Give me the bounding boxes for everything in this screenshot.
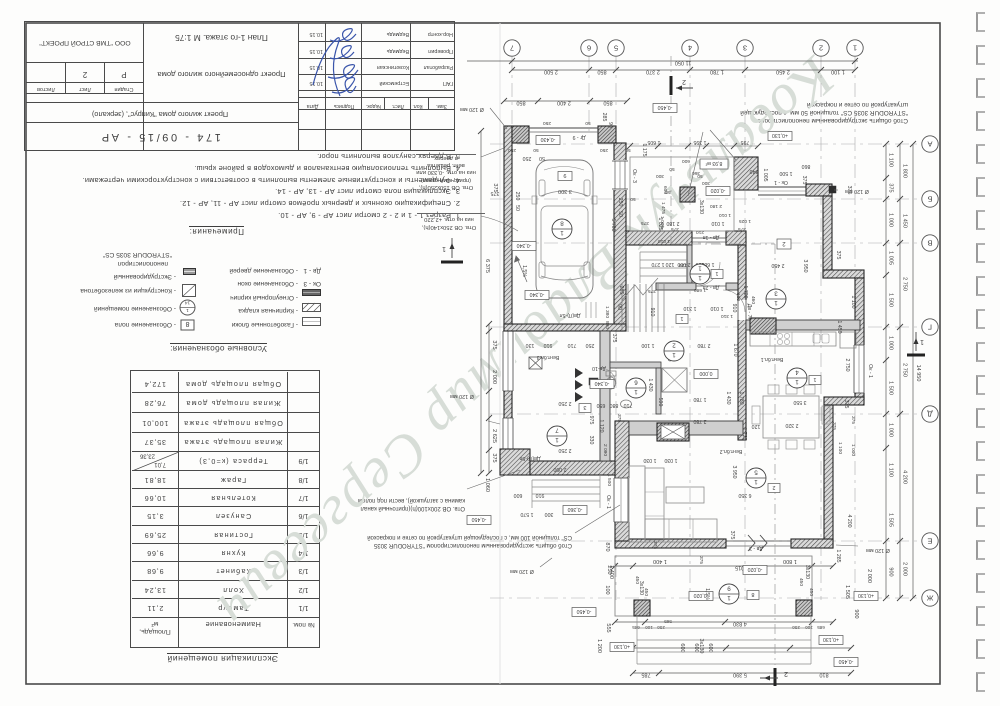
svg-text:1 500: 1 500: [606, 474, 612, 486]
svg-text:90: 90: [616, 304, 622, 310]
svg-text:1: 1: [672, 351, 676, 358]
svg-text:Е: Е: [927, 536, 932, 545]
svg-text:1 010: 1 010: [658, 238, 670, 244]
svg-text:1 500: 1 500: [888, 293, 894, 307]
car in garage: [536, 160, 593, 298]
svg-text:0,000: 0,000: [699, 370, 712, 376]
svg-text:3х130: 3х130: [698, 200, 704, 214]
svg-text:375: 375: [611, 334, 617, 343]
svg-text:2 000: 2 000: [491, 370, 497, 384]
svg-text:1: 1: [698, 265, 702, 272]
vent block 2: [657, 423, 689, 441]
svg-text:2 780: 2 780: [693, 418, 706, 424]
svg-text:50: 50: [514, 205, 520, 211]
svg-text:450: 450: [798, 578, 804, 586]
svg-text:600: 600: [662, 186, 668, 194]
svg-text:1 005: 1 005: [762, 169, 768, 182]
svg-text:6: 6: [634, 379, 638, 386]
svg-text:1,5%: 1,5%: [704, 588, 710, 600]
svg-text:250: 250: [586, 342, 595, 348]
porch dim chain: [630, 145, 758, 147]
section 2 cut line: [670, 56, 672, 244]
svg-text:650: 650: [597, 402, 606, 408]
svg-text:375: 375: [652, 541, 658, 549]
vestibule bottom wall + door Дв-2п: [656, 283, 696, 290]
notes block: [189, 226, 244, 235]
svg-text:375: 375: [491, 190, 500, 196]
svg-text:1 120: 1 120: [598, 420, 604, 433]
kitchen counter: [750, 332, 836, 346]
svg-text:1 570: 1 570: [520, 511, 533, 517]
svg-text:Вент.бл.2: Вент.бл.2: [720, 448, 743, 454]
binding hole marks: [976, 12, 985, 32]
svg-text:2 370: 2 370: [646, 69, 660, 75]
svg-text:Ø 120 мм: Ø 120 мм: [450, 393, 474, 399]
svg-text:250: 250: [514, 192, 520, 201]
level marks: [653, 104, 677, 113]
svg-text:1,5%: 1,5%: [521, 265, 527, 277]
svg-text:250: 250: [657, 625, 665, 630]
svg-text:900: 900: [888, 567, 894, 576]
svg-text:2 750: 2 750: [902, 277, 908, 291]
door swing arcs: [723, 290, 745, 312]
svg-text:+0,130: +0,130: [772, 132, 788, 138]
svg-text:1: 1: [442, 245, 446, 252]
svg-text:-0,340: -0,340: [595, 380, 610, 386]
svg-text:8: 8: [560, 220, 564, 227]
svg-text:-0,340: -0,340: [517, 242, 532, 248]
svg-text:2 500: 2 500: [544, 69, 558, 75]
svg-text:1 025: 1 025: [659, 216, 665, 228]
vestibule left wall: [687, 245, 692, 284]
wall right of vestibule: [738, 245, 746, 440]
svg-text:250: 250: [617, 198, 623, 207]
svg-text:Дв - 7п: Дв - 7п: [746, 304, 752, 321]
svg-text:3: 3: [743, 43, 747, 52]
svg-text:3: 3: [774, 290, 778, 297]
margin note: vent 150x250: [414, 154, 478, 190]
svg-text:880: 880: [604, 321, 610, 329]
svg-text:5 390: 5 390: [733, 672, 747, 678]
svg-text:1 310: 1 310: [721, 313, 733, 319]
svg-text:-0,450: -0,450: [839, 658, 854, 664]
svg-text:910: 910: [544, 342, 553, 348]
svg-text:2 180: 2 180: [710, 203, 722, 209]
svg-text:1 800: 1 800: [783, 558, 797, 564]
svg-text:900: 900: [853, 609, 859, 618]
dining table: [763, 396, 819, 438]
svg-text:1 005: 1 005: [888, 251, 894, 265]
svg-text:Ø 120 мм: Ø 120 мм: [866, 547, 890, 553]
bottom wall left part: [615, 539, 726, 548]
svg-text:450: 450: [808, 588, 814, 596]
svg-text:3х130: 3х130: [804, 565, 810, 579]
svg-text:3 550: 3 550: [793, 399, 806, 405]
svg-text:1 100: 1 100: [888, 463, 894, 477]
window Ок-5 in left wall: [501, 331, 515, 391]
svg-text:100: 100: [735, 293, 741, 301]
svg-text:2 250: 2 250: [558, 400, 571, 406]
svg-text:375: 375: [616, 414, 622, 422]
svg-text:-0,020: -0,020: [748, 566, 763, 572]
svg-text:600: 600: [707, 643, 713, 652]
svg-text:2: 2: [819, 43, 823, 52]
svg-text:1 000: 1 000: [888, 423, 894, 437]
svg-text:1 450: 1 450: [902, 214, 908, 228]
svg-text:785: 785: [641, 672, 650, 678]
svg-text:1 010: 1 010: [719, 212, 731, 218]
fireplace triangles: [575, 368, 583, 402]
svg-text:1 060: 1 060: [484, 478, 490, 492]
svg-text:450: 450: [634, 576, 640, 584]
axis number circles top: [504, 40, 520, 56]
svg-text:975: 975: [588, 416, 594, 425]
svg-text:4 200: 4 200: [846, 515, 852, 528]
shower cabin with cross: [662, 368, 687, 392]
pier right + vent: [806, 184, 832, 196]
svg-text:1 780: 1 780: [693, 396, 706, 402]
svg-text:100: 100: [645, 625, 653, 630]
svg-text:810: 810: [819, 672, 828, 678]
svg-text:Дв(Л)-5л: Дв(Л)-5л: [560, 312, 581, 318]
svg-text:2 000: 2 000: [902, 562, 908, 576]
svg-text:4: 4: [688, 43, 692, 52]
svg-text:Дв-10: Дв-10: [592, 365, 606, 371]
svg-text:50: 50: [539, 155, 545, 161]
svg-text:1 720: 1 720: [742, 286, 748, 299]
hall stairs treads: [621, 284, 623, 332]
svg-text:375: 375: [831, 422, 837, 430]
svg-text:1 670: 1 670: [732, 344, 738, 357]
axis grid dashed lines: [511, 56, 513, 131]
svg-text:8,93 м²: 8,93 м²: [705, 160, 722, 166]
svg-text:1 310: 1 310: [683, 305, 696, 311]
svg-text:Ок - 1: Ок - 1: [867, 364, 873, 378]
room schedule table: [167, 653, 278, 663]
svg-text:1 680: 1 680: [694, 287, 706, 293]
svg-text:Дв - 1п: Дв - 1п: [703, 234, 720, 240]
svg-text:2: 2: [772, 484, 775, 490]
svg-text:2 750: 2 750: [844, 359, 850, 372]
svg-text:1 100: 1 100: [850, 296, 856, 309]
bathroom toilet: [606, 371, 616, 376]
svg-text:300: 300: [702, 180, 710, 186]
right wall kitchen: [855, 278, 864, 399]
svg-text:1 475: 1 475: [660, 202, 666, 214]
svg-text:565: 565: [664, 619, 672, 624]
window Ок-1 front: [758, 186, 806, 188]
svg-text:910: 910: [731, 304, 737, 313]
svg-text:2 780: 2 780: [697, 342, 710, 348]
garage/boiler dividing wall: [504, 324, 626, 331]
section 2 top marker: [670, 76, 673, 95]
svg-text:4: 4: [795, 369, 799, 376]
note: styrodur 50mm (appears top-right of plan): [718, 100, 908, 124]
leaders from margin notes: [481, 148, 504, 157]
svg-text:Дв(П)-5п: Дв(П)-5п: [519, 455, 540, 461]
svg-text:1: 1: [634, 388, 638, 395]
svg-text:555: 555: [605, 623, 611, 632]
svg-text:1 380: 1 380: [604, 306, 610, 318]
blue pen signatures: [280, 22, 370, 106]
svg-text:130: 130: [526, 342, 535, 348]
svg-text:1 285: 1 285: [835, 550, 841, 563]
svg-text:2: 2: [672, 342, 676, 349]
svg-text:910: 910: [649, 308, 655, 317]
entry front wall: [626, 231, 692, 245]
svg-text:840: 840: [750, 168, 759, 174]
svg-text:300: 300: [656, 173, 664, 179]
svg-text:330: 330: [588, 436, 594, 445]
svg-text:1 000: 1 000: [850, 444, 856, 456]
svg-text:1 030: 1 030: [664, 457, 677, 463]
svg-text:1 100: 1 100: [831, 69, 845, 75]
section 1 right marker: [907, 354, 925, 357]
svg-text:250: 250: [523, 155, 532, 161]
door Дв-1п opening: [692, 237, 726, 239]
kitchen/living divider wall: [629, 421, 743, 435]
svg-text:710: 710: [624, 402, 633, 408]
svg-text:450: 450: [643, 588, 649, 596]
svg-text:90: 90: [607, 122, 613, 128]
svg-text:1 500: 1 500: [779, 170, 792, 176]
svg-text:250: 250: [543, 120, 551, 126]
svg-text:850: 850: [603, 100, 612, 106]
svg-text:2 625: 2 625: [491, 429, 497, 443]
svg-text:50: 50: [625, 147, 631, 153]
sofa L-group: [629, 466, 645, 542]
svg-text:1 400: 1 400: [653, 558, 667, 564]
right dim chain letters: [899, 144, 901, 598]
svg-text:50: 50: [630, 196, 636, 202]
svg-text:6 350: 6 350: [738, 492, 751, 498]
svg-text:850: 850: [516, 100, 525, 106]
svg-text:6: 6: [587, 43, 591, 52]
entry porch slab outline: [630, 157, 734, 231]
svg-text:1 100: 1 100: [888, 153, 894, 167]
svg-text:2 450: 2 450: [776, 69, 790, 75]
svg-text:-0,450: -0,450: [658, 104, 673, 110]
terrace column left: [634, 600, 650, 616]
svg-text:1 270: 1 270: [651, 261, 664, 267]
svg-text:5 700: 5 700: [610, 219, 616, 232]
svg-text:1: 1: [774, 299, 778, 306]
svg-text:1: 1: [920, 338, 924, 345]
svg-text:50: 50: [533, 147, 539, 153]
window Ок-3 in garage right wall: [612, 160, 628, 190]
svg-text:7: 7: [510, 43, 514, 52]
svg-text:-0,450: -0,450: [472, 516, 487, 522]
margin note: styrodur column 100mm: [324, 532, 572, 548]
svg-text:1 100: 1 100: [837, 442, 843, 454]
svg-text:1: 1: [680, 315, 683, 321]
svg-text:1: 1: [698, 274, 702, 281]
svg-text:Ø 120 мм: Ø 120 мм: [460, 106, 484, 112]
svg-text:1 720: 1 720: [741, 428, 747, 441]
svg-text:14 950: 14 950: [915, 365, 921, 382]
svg-text:В: В: [927, 238, 932, 247]
svg-text:2 090: 2 090: [553, 466, 566, 472]
svg-text:375: 375: [698, 556, 704, 564]
bottom dim chains: [633, 672, 851, 674]
svg-text:375: 375: [850, 416, 856, 424]
svg-text:120: 120: [679, 262, 687, 268]
svg-text:Ø 120 мм: Ø 120 мм: [845, 188, 869, 194]
svg-text:120: 120: [666, 261, 675, 267]
svg-text:3 950: 3 950: [802, 260, 808, 273]
svg-text:1 605: 1 605: [647, 139, 660, 145]
svg-text:Ок - 3: Ок - 3: [631, 169, 637, 183]
svg-text:1 780: 1 780: [738, 392, 744, 405]
boiler/hall interior wall: [600, 331, 610, 461]
svg-text:1 505: 1 505: [888, 513, 894, 527]
section 2 bottom marker: [774, 668, 777, 686]
svg-text:1 100: 1 100: [641, 342, 654, 348]
svg-text:50: 50: [669, 166, 675, 172]
svg-text:50: 50: [697, 173, 703, 179]
svg-text:Б: Б: [927, 194, 932, 203]
svg-text:795: 795: [741, 139, 750, 145]
svg-text:Дг - 9: Дг - 9: [572, 134, 585, 140]
boiler room bottom exterior wall: [500, 449, 530, 475]
svg-text:3х130: 3х130: [698, 639, 704, 654]
bathroom sink: [621, 400, 632, 408]
svg-text:1: 1: [853, 43, 857, 52]
svg-text:9: 9: [727, 585, 731, 592]
svg-text:1 430: 1 430: [725, 392, 731, 405]
svg-text:1 010: 1 010: [710, 305, 723, 311]
svg-text:590: 590: [657, 398, 663, 407]
right total 14950: [912, 144, 914, 598]
svg-text:3 950: 3 950: [731, 466, 737, 479]
coffee table: [666, 487, 704, 503]
svg-text:+0,130: +0,130: [858, 592, 874, 598]
svg-text:100: 100: [604, 585, 610, 594]
svg-text:2: 2: [682, 78, 686, 85]
watermark: [204, 44, 848, 642]
axis letter circles right: [922, 136, 938, 152]
svg-text:4 830: 4 830: [733, 621, 747, 627]
svg-text:1 400: 1 400: [608, 565, 614, 579]
svg-text:1 000: 1 000: [888, 213, 894, 227]
jog wall: [823, 270, 864, 278]
svg-text:375: 375: [835, 251, 841, 260]
svg-text:2 450: 2 450: [771, 262, 784, 268]
svg-text:2 400: 2 400: [557, 100, 571, 106]
svg-text:5: 5: [754, 469, 758, 476]
kitchen top wall: [746, 320, 860, 330]
svg-text:880: 880: [610, 402, 619, 408]
svg-text:1 000: 1 000: [888, 336, 894, 350]
svg-text:-0,430: -0,430: [541, 136, 556, 142]
svg-text:2 090: 2 090: [602, 444, 608, 456]
svg-text:2: 2: [784, 670, 788, 677]
svg-text:600: 600: [682, 158, 690, 164]
back steps near boiler: [532, 479, 600, 481]
svg-text:7: 7: [555, 427, 559, 434]
svg-text:-0,450: -0,450: [577, 608, 592, 614]
svg-text:120: 120: [752, 423, 761, 429]
svg-text:860: 860: [802, 163, 811, 169]
svg-text:100: 100: [805, 625, 813, 630]
right wall upper (office): [823, 196, 832, 278]
front pier top-right: [734, 157, 758, 190]
kitchen bottom jog wall: [824, 397, 864, 405]
margin note: vent 200x100: [337, 495, 465, 511]
svg-text:Ж: Ж: [926, 593, 933, 602]
terrace column right: [796, 600, 812, 616]
svg-text:375: 375: [738, 226, 746, 232]
bottom wall right part: [791, 539, 833, 548]
svg-text:Ø 120 мм: Ø 120 мм: [510, 568, 534, 574]
svg-text:685: 685: [817, 625, 825, 630]
svg-text:460: 460: [750, 296, 756, 304]
svg-text:1 430: 1 430: [647, 379, 653, 392]
svg-text:375: 375: [801, 176, 807, 185]
svg-text:8: 8: [751, 591, 754, 597]
svg-text:+0,130: +0,130: [823, 636, 839, 642]
svg-text:50: 50: [617, 211, 623, 217]
svg-text:1 800: 1 800: [902, 164, 908, 178]
svg-text:375: 375: [843, 400, 849, 409]
svg-text:Г: Г: [928, 322, 932, 331]
svg-text:375: 375: [671, 226, 679, 232]
svg-text:Д: Д: [927, 409, 932, 418]
terrace steps: [637, 627, 811, 629]
svg-text:3 300: 3 300: [558, 188, 572, 194]
fireplace dark block: [589, 378, 598, 385]
svg-text:Ок - 1: Ок - 1: [605, 495, 611, 509]
svg-text:375: 375: [491, 453, 497, 462]
svg-text:+0,130: +0,130: [614, 643, 630, 649]
svg-text:1: 1: [555, 436, 559, 443]
porch chimney column: [680, 187, 695, 202]
svg-text:250: 250: [600, 147, 608, 153]
living room left exterior wall: [615, 421, 629, 541]
garage dim chain 850/2400/850: [504, 100, 627, 102]
legend: [170, 344, 267, 353]
svg-text:1 780: 1 780: [710, 69, 724, 75]
svg-text:Ок - 1: Ок - 1: [774, 179, 788, 185]
svg-text:5: 5: [614, 43, 618, 52]
window 2 in left wall: [501, 418, 515, 450]
svg-text:-0,020: -0,020: [711, 187, 726, 193]
svg-text:1: 1: [795, 378, 799, 385]
svg-text:1 450: 1 450: [836, 321, 842, 334]
svg-text:11 050: 11 050: [675, 60, 691, 66]
svg-text:210: 210: [696, 229, 704, 235]
svg-text:2 250: 2 250: [558, 447, 571, 453]
bathroom walls: [610, 362, 661, 368]
svg-text:1 175: 1 175: [641, 144, 647, 157]
svg-text:1: 1: [754, 478, 758, 485]
svg-text:2 320: 2 320: [785, 422, 798, 428]
svg-text:300: 300: [545, 511, 554, 517]
svg-text:6 375: 6 375: [484, 259, 490, 273]
svg-text:250: 250: [508, 147, 516, 153]
svg-text:375: 375: [491, 340, 497, 349]
terrace outline: [615, 556, 812, 616]
svg-text:285: 285: [618, 286, 624, 295]
svg-text:2 000: 2 000: [866, 569, 872, 583]
svg-text:4 200: 4 200: [902, 470, 908, 484]
svg-text:375: 375: [729, 531, 735, 540]
slope arrow garage: [515, 256, 528, 282]
right wall dining: [824, 405, 833, 548]
svg-text:50: 50: [585, 120, 591, 126]
svg-text:600: 600: [514, 492, 523, 498]
svg-text:А: А: [927, 139, 932, 148]
